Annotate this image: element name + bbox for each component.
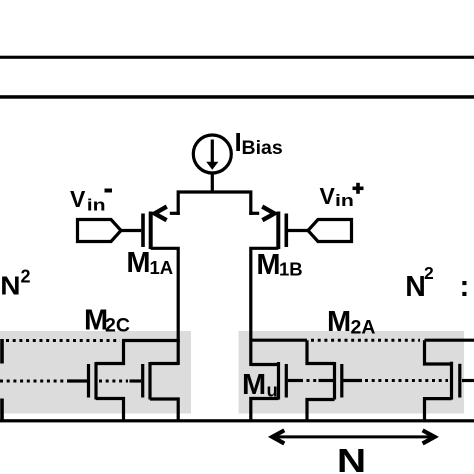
svg-text:u: u: [267, 380, 278, 401]
svg-text:2: 2: [424, 263, 434, 283]
svg-text:2C: 2C: [105, 315, 130, 337]
svg-text:in: in: [335, 192, 354, 211]
svg-text:Bias: Bias: [242, 137, 283, 159]
svg-text:2A: 2A: [351, 317, 376, 339]
svg-text:N: N: [337, 443, 366, 474]
svg-text:N: N: [405, 271, 426, 303]
svg-text:V: V: [70, 186, 86, 212]
svg-text:V: V: [320, 183, 336, 209]
svg-text:2: 2: [21, 266, 31, 286]
svg-text:M: M: [242, 369, 266, 401]
svg-text:N: N: [0, 272, 20, 301]
svg-text:M: M: [126, 247, 150, 279]
svg-text:1A: 1A: [150, 257, 174, 278]
svg-text:1B: 1B: [279, 259, 303, 280]
svg-text::: :: [460, 270, 470, 303]
svg-text:M: M: [256, 249, 280, 281]
svg-text:M: M: [327, 306, 351, 338]
svg-text:in: in: [87, 196, 106, 215]
